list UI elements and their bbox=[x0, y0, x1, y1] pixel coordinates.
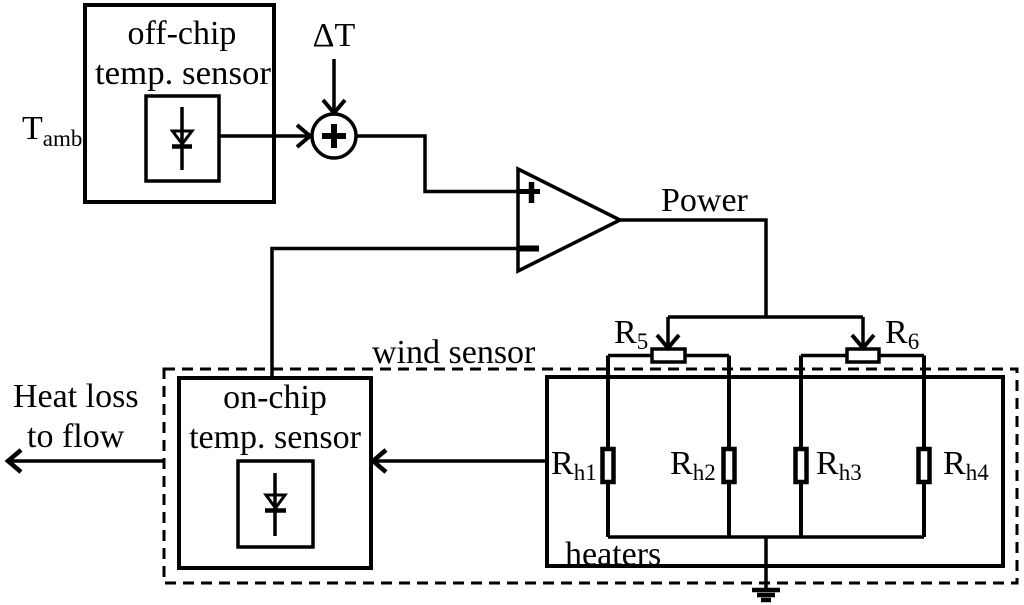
svg-text:temp. sensor: temp. sensor bbox=[189, 419, 362, 456]
svg-text:heaters: heaters bbox=[565, 536, 661, 573]
svg-text:temp. sensor: temp. sensor bbox=[95, 55, 272, 92]
resistor Rh3 bbox=[796, 356, 807, 538]
wire ΔT to summer bbox=[323, 59, 345, 113]
on-chip temp sensor block bbox=[179, 378, 371, 568]
svg-text:off-chip: off-chip bbox=[128, 15, 237, 52]
svg-text:to flow: to flow bbox=[27, 418, 125, 455]
wire heaters to on-chip sensor arrow bbox=[373, 450, 547, 472]
wire off-chip output to summer bbox=[219, 125, 310, 147]
potentiometer R6 bbox=[847, 317, 879, 362]
heaters enclosure bbox=[547, 377, 1003, 566]
wire heat loss arrow bbox=[8, 450, 164, 472]
wire R5 right terminal bbox=[685, 354, 729, 358]
diode D2 (on-chip sensor) bbox=[238, 461, 313, 547]
diode D1 (off-chip sensor) bbox=[146, 96, 219, 181]
wire bus to ground bbox=[764, 537, 768, 589]
wire op-amp output down to R5/R6 branch bbox=[620, 220, 766, 317]
op-amp U1 bbox=[518, 169, 620, 271]
svg-text:Power: Power bbox=[661, 182, 749, 219]
svg-text:on-chip: on-chip bbox=[223, 379, 327, 416]
wire bottom bus bbox=[608, 535, 924, 539]
svg-text:ΔT: ΔT bbox=[313, 17, 356, 54]
resistor Rh4 bbox=[919, 356, 930, 538]
wire op-amp - input to on-chip sensor bbox=[272, 249, 530, 379]
off-chip temp sensor block U_off bbox=[85, 5, 274, 202]
wind sensor dashed enclosure bbox=[164, 369, 1017, 583]
svg-text:Heat loss: Heat loss bbox=[13, 378, 139, 415]
summing junction S1 bbox=[312, 114, 356, 158]
potentiometer R5 bbox=[652, 317, 685, 362]
svg-text:wind sensor: wind sensor bbox=[372, 334, 536, 371]
wire branch to wipers bbox=[668, 315, 863, 319]
wire summer to op-amp + input bbox=[356, 136, 540, 192]
wire R6 right terminal bbox=[879, 354, 924, 358]
resistor Rh2 bbox=[724, 356, 735, 538]
resistor Rh1 bbox=[603, 356, 614, 538]
ground bbox=[752, 590, 780, 600]
wire R5 left terminal bbox=[608, 354, 652, 358]
wire R6 left terminal bbox=[801, 354, 847, 358]
